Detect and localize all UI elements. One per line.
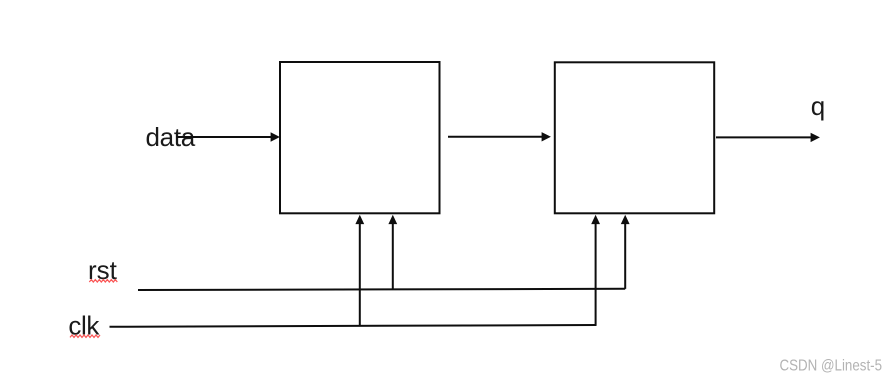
wire q output arrow [716, 133, 820, 142]
svg-text:q: q [811, 91, 825, 121]
wire stage1 to stage2 arrow [448, 132, 551, 141]
wire data input arrow [177, 132, 280, 141]
svg-text:CSDN @Linest-5: CSDN @Linest-5 [780, 358, 883, 375]
register block 2 [555, 62, 714, 213]
wire rst to reg2 arrow [621, 215, 630, 289]
rst spellcheck squiggle [89, 280, 117, 282]
wire clk to reg1 arrow [355, 215, 364, 327]
clk spellcheck squiggle [70, 335, 100, 337]
wire rst to reg1 arrow [388, 215, 397, 290]
wire clk to reg2 arrow [591, 215, 600, 325]
wire clk bus [110, 325, 597, 327]
wire rst bus [138, 289, 625, 290]
register block 1 [280, 62, 440, 213]
